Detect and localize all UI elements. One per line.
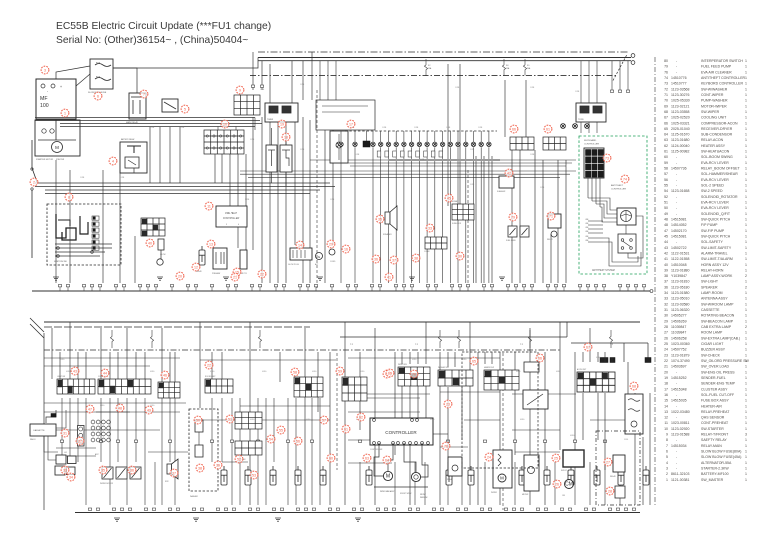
svg-text:CASSETTE: CASSETTE [701,308,720,312]
wiper max motor M1 [383,471,392,480]
starter sw heavy box [563,450,584,467]
parts row 41 SW-LIMIT-T/ALARM [664,257,747,261]
wire vertical lower [394,352,396,455]
svg-text:SAEFTY RELAY: SAEFTY RELAY [701,438,727,442]
relay with indicator [548,214,561,228]
svg-text:17: 17 [349,122,353,126]
svg-text:LINE: LINE [585,227,588,229]
sensor S6 [394,142,398,146]
svg-text:SOL-SAFETY: SOL-SAFETY [701,240,723,244]
battery MF100 B1 [36,79,76,119]
wire vertical lower [359,352,361,430]
svg-text:1025-02520: 1025-02520 [671,116,690,120]
svg-text:62: 62 [664,144,668,148]
svg-text:0.85G: 0.85G [412,359,417,361]
svg-text:F/P PUMP: F/P PUMP [701,223,718,227]
svg-text:1: 1 [745,438,747,442]
svg-text:SENDER-ENG TEMP: SENDER-ENG TEMP [701,382,736,386]
solenoid SV at 618 [618,466,624,485]
svg-text:HORN ASSY 12V: HORN ASSY 12V [701,263,729,267]
wire vertical lower mid [211,398,213,462]
callout 22 [205,361,213,369]
parts row 4 ALTERNATOR-55A [666,461,747,465]
solenoid SV at 446 [446,466,452,485]
wiper motor assembly [493,450,512,488]
svg-text:1: 1 [745,138,747,142]
svg-text:SOLENOID_ROTATOR: SOLENOID_ROTATOR [701,195,738,199]
solenoid SV at 544 [544,466,550,485]
svg-text:22: 22 [664,359,668,363]
wire vertical lower mid [61,398,63,462]
parts row 52 SOLENOID_ROTATOR [664,195,747,199]
wire bus corner left [113,58,258,69]
svg-text:56: 56 [664,178,668,182]
svg-text:30: 30 [664,314,668,318]
svg-text:1: 1 [745,76,747,80]
svg-text:0.85G: 0.85G [210,371,215,373]
wire vertical lower extra [425,386,427,430]
svg-text:1.25B: 1.25B [446,127,450,129]
parts row 36 SPEAKER [664,285,747,289]
callout 13 [207,240,215,248]
sensor row dashed rail [345,130,497,132]
svg-text:KEYBORD CONTROLLER: KEYBORD CONTROLLER [701,82,743,86]
svg-text:14: 14 [664,404,668,408]
connector CN-L4c [342,377,367,401]
svg-text:29: 29 [329,242,333,246]
svg-text:1: 1 [745,195,747,199]
dashed vertical separator B [467,170,469,287]
ignition switch contact maze [56,214,76,240]
horizontal harness lines mid-left [35,182,330,184]
parts row 21 SW_OVER LOAD [664,365,747,369]
svg-text:KEYBOARD: KEYBOARD [584,139,597,142]
svg-text:2: 2 [745,285,747,289]
svg-text:STARTER MOTOR: STARTER MOTOR [36,158,54,161]
svg-text:EVA-RCV LEVER: EVA-RCV LEVER [701,161,729,165]
speaker lower [167,459,178,479]
wire vertical [550,234,552,283]
svg-text:56: 56 [296,439,300,443]
parts row 23 SW-CHECK [664,353,747,357]
parts row 6 SLOW BLOW FUSE(80A) [666,450,747,454]
svg-text:60: 60 [664,155,668,159]
callout 40 [146,239,154,247]
svg-text:14514052: 14514052 [671,223,687,227]
svg-text:1: 1 [745,450,747,454]
wire vertical lower [649,393,651,505]
svg-text:34: 34 [664,291,668,295]
svg-text:41: 41 [387,275,391,279]
svg-text:CASSETTE: CASSETTE [33,429,45,432]
top dash-dot feeder line [258,51,628,53]
svg-text:1.25B: 1.25B [530,87,534,89]
svg-text:49: 49 [147,408,151,412]
svg-text:14515081: 14515081 [671,235,687,239]
parts row 59 EVA-RCV LEVER [664,161,747,165]
svg-text:76: 76 [444,444,448,448]
wire vertical lower deep [554,462,556,505]
svg-text:1123-02920: 1123-02920 [671,427,689,431]
svg-text:1023-00360: 1023-00360 [671,342,690,346]
wire vertical [459,64,461,206]
controller main box [370,418,433,445]
svg-text:6: 6 [97,94,99,98]
frame outline mid [316,100,375,130]
stub [250,285,253,287]
stub [274,285,277,287]
wire vertical lower deep [589,462,591,505]
svg-text:3: 3 [44,68,46,72]
svg-text:5: 5 [226,224,227,226]
svg-text:14502722: 14502722 [671,246,687,250]
lower band left border vertical [43,333,45,510]
speaker connector circle matrix [91,420,95,424]
antitheft relay contacts [618,234,636,253]
svg-text:0.85G: 0.85G [570,435,575,437]
wire vertical [309,120,311,283]
antitheft bundle to controller [588,198,617,210]
svg-text:INTERPERATOR SWITCH: INTERPERATOR SWITCH [701,59,743,63]
resistor R glow [158,239,164,250]
svg-text:1: 1 [745,65,747,69]
svg-text:SOL-2 SPEED: SOL-2 SPEED [701,184,724,188]
wire vertical [229,154,231,218]
callout 19 [278,120,286,128]
wire vertical lower mid [100,398,102,462]
stub [642,285,645,287]
wire vertical lower extra [604,393,606,470]
svg-text:52: 52 [237,457,241,461]
svg-text:SW-LIMIT-SAFETY: SW-LIMIT-SAFETY [701,246,732,250]
svg-text:1122-01558: 1122-01558 [671,257,689,261]
svg-text:FUSE: FUSE [452,201,458,203]
stub [370,285,373,287]
fuse block FB upper [452,204,474,220]
svg-text:HEATER-AIR: HEATER-AIR [701,404,722,408]
svg-text:1123-01680: 1123-01680 [671,138,689,142]
svg-text:60: 60 [329,456,333,460]
wire vertical lower [559,322,561,450]
svg-text:14503697: 14503697 [671,365,687,369]
svg-text:1: 1 [745,376,747,380]
stub [410,285,413,287]
svg-text:61: 61 [344,427,348,431]
svg-text:72289: 72289 [578,119,584,121]
parts row 8 SAEFTY RELAY [666,438,747,442]
svg-text:40: 40 [148,241,152,245]
svg-text:F.8: F.8 [506,65,508,67]
dashed safety box [462,352,538,468]
callout 54 [267,435,275,443]
callout 29 [327,240,335,248]
dash dot box lower right [596,431,640,505]
svg-text:48: 48 [118,406,122,410]
svg-text:CONTROLLER: CONTROLLER [385,430,417,435]
svg-text:50: 50 [196,418,200,422]
sensor S10 [425,142,429,146]
svg-text:1.25B: 1.25B [382,127,386,129]
svg-text:1: 1 [745,121,747,125]
wire vertical lower [454,352,456,367]
wire vertical lower [425,322,427,364]
parts row 11 CONT-PREHEAT [664,421,747,425]
wire vertical lower mid [287,398,289,462]
parts row 27 ROOM LAMP [664,331,747,335]
ground upper [409,277,415,280]
svg-text:1: 1 [745,70,747,74]
svg-text:5: 5 [666,455,668,459]
svg-text:LINE: LINE [585,240,588,242]
svg-text:1: 1 [745,331,747,335]
wire vertical lower mid [69,398,71,462]
callout 37 [390,256,398,264]
svg-text:1: 1 [745,178,747,182]
stub [66,285,69,287]
speaker R connector pair [55,466,65,475]
slow blow fuse box F60 [90,59,113,89]
svg-text:36: 36 [130,468,134,472]
wire vertical lower [221,352,223,379]
speaker L connector pair [56,455,66,464]
wires acon box to sensors [580,122,582,133]
stub [354,285,357,287]
wire vertical lower deep [447,462,449,505]
wire vertical lower [447,352,449,367]
stub [602,285,605,287]
wire vertical lower [514,352,516,455]
callout 58 [291,368,299,376]
svg-text:66: 66 [512,127,516,131]
cassette radio [30,424,56,436]
parts row 14 HEATER-AIR [664,404,747,408]
side relay box [524,362,539,372]
svg-text:23: 23 [446,402,450,406]
svg-text:2: 2 [745,325,747,329]
left trunk wire with master switch [31,140,33,168]
svg-text:72: 72 [664,87,668,91]
svg-text:1023-00811: 1023-00811 [671,421,689,425]
parts row 3 STARTER-2.3KW [666,467,747,471]
parts row 22 SW_OILORD PRESSURE SW [664,359,749,363]
parts row 56 EVA-RCV LEVER [664,178,747,182]
svg-text:1.25B: 1.25B [330,199,334,201]
svg-text:1: 1 [64,111,66,115]
fuse tap [258,330,261,348]
antitheft controller box [617,208,636,225]
callout 2 [30,178,38,186]
svg-text:WASHER: WASHER [190,495,199,498]
svg-text:0.85G: 0.85G [250,419,255,421]
bus drop at 292 [291,61,293,103]
wire vertical [491,156,493,283]
wire vertical [565,160,567,283]
svg-text:SW-F/P PUMP: SW-F/P PUMP [701,229,725,233]
wire vertical lower extra [461,387,463,440]
svg-text:1.25B: 1.25B [180,127,184,129]
wires CN-B down [214,154,216,183]
svg-text:33: 33 [63,468,67,472]
relay lower right [613,455,625,472]
svg-text:1: 1 [745,365,747,369]
svg-text:41: 41 [664,257,668,261]
wire vertical lower [589,328,591,362]
wire vertical lower deep [109,462,111,505]
svg-text:1123-05010: 1123-05010 [671,297,689,301]
svg-text:1: 1 [745,461,747,465]
svg-text:EVA AIR CLEANER: EVA AIR CLEANER [701,70,732,74]
svg-text:0.85G: 0.85G [66,371,71,373]
wire vertical [332,123,334,245]
parts row 79 FUEL FEED PUMP [664,65,747,69]
wire vertical lower mid [85,398,87,462]
svg-text:55: 55 [664,184,668,188]
parts row 29 SW-BEACON LAMP [664,319,747,323]
svg-text:RELAY: RELAY [547,238,554,241]
connector CN-L6 [438,370,473,386]
svg-text:71: 71 [549,214,553,218]
svg-text:4: 4 [666,461,668,465]
svg-text:3: 3 [745,433,747,437]
svg-text:SW_OVER LOAD: SW_OVER LOAD [701,365,729,369]
svg-text:9: 9 [239,88,241,92]
svg-text:14515035: 14515035 [671,399,687,403]
master switch node [31,168,33,170]
relay cartridge pair [266,145,277,172]
svg-text:0.85G: 0.85G [556,371,561,373]
svg-text:ROOM LAMP: ROOM LAMP [205,375,216,378]
svg-text:48: 48 [664,223,668,227]
svg-text:19: 19 [280,122,284,126]
relay acon box right [576,103,606,122]
svg-text:SW-WIPER: SW-WIPER [701,110,720,114]
callout 14 [296,241,304,249]
svg-text:1.25B: 1.25B [260,89,264,91]
separator dash line before parts list [654,57,656,505]
solenoid SV at 643 [643,466,649,485]
parts row 55 SOL-2 SPEED [664,184,747,188]
connector CN-C [141,218,165,236]
wire vertical lower [144,352,146,379]
svg-text:32: 32 [664,302,668,306]
timer unit box [265,103,298,122]
svg-text:79: 79 [511,215,515,219]
wire vertical lower deep [619,462,621,505]
connector row lower band [57,379,95,394]
svg-text:26: 26 [664,336,668,340]
ground upper [499,277,505,280]
svg-text:1: 1 [745,59,747,63]
fuse break F3 on bus [523,59,526,76]
svg-text:SPEAKER: SPEAKER [383,233,392,236]
svg-text:73: 73 [605,156,609,160]
callout 35 [99,466,107,474]
callout 59 [336,367,344,375]
parts row 58 RELAY_BOOM OFFSET [664,167,747,171]
svg-text:1: 1 [745,308,747,312]
wire vertical [519,150,521,283]
starter motor unit [35,120,80,156]
wire vertical lower deep [257,462,259,505]
svg-text:45: 45 [664,235,668,239]
svg-text:GLOW PLUG: GLOW PLUG [288,264,299,266]
svg-text:1: 1 [745,189,747,193]
svg-text:F.2: F.2 [428,65,430,67]
wire vertical lower [484,352,486,364]
svg-text:68: 68 [664,110,668,114]
parts row 31 CASSETTE [664,308,747,312]
wire vertical [534,150,536,283]
coil unit right column [625,394,643,434]
svg-text:64: 64 [664,133,668,137]
svg-text:METER: METER [522,494,529,496]
svg-text:33: 33 [428,226,432,230]
dash-dot distribution bus [250,75,618,77]
callout 5 [181,105,189,113]
sensor S17 [479,142,483,146]
svg-text:ANTENNA ASSY: ANTENNA ASSY [701,297,728,301]
callout 71 [547,212,555,220]
svg-text:CLUSTER ASSY: CLUSTER ASSY [701,387,728,391]
parts row 57 SOL-HAMMER/SHEAR [664,172,747,176]
svg-text:14515252: 14515252 [671,376,687,380]
callout 25 [552,454,560,462]
svg-text:1: 1 [745,218,747,222]
svg-text:RELAY-MAIN: RELAY-MAIN [701,444,722,448]
callout 10 [221,120,229,128]
stub [306,285,309,287]
callout 39 [214,461,222,469]
wire vertical lower deep [265,462,267,505]
svg-text:CONT-PREHEAT: CONT-PREHEAT [701,421,729,425]
wire vertical lower deep [231,462,233,505]
wire fuse to relay [113,68,137,93]
svg-text:38: 38 [414,256,418,260]
stub [234,285,237,287]
parts row 17 CLUSTER ASSY [664,387,747,391]
svg-text:FRONT WDW: FRONT WDW [400,493,412,495]
svg-text:37: 37 [172,471,176,475]
svg-text:ANTITHEFT: ANTITHEFT [611,184,624,187]
svg-text:1: 1 [745,472,747,476]
svg-text:ANTITHEFT SYSTEM: ANTITHEFT SYSTEM [592,269,615,272]
wire vertical lower deep [311,462,313,505]
lower band second bus [44,326,310,328]
callout 52 [235,455,243,463]
svg-text:7: 7 [666,444,668,448]
svg-text:51: 51 [664,201,668,205]
callout 38 [412,254,420,262]
stub [554,285,557,287]
wire vertical [245,154,247,250]
svg-text:SW-W/WASHER: SW-W/WASHER [701,87,728,91]
wire vertical lower [582,352,584,362]
svg-text:SW-CHECK: SW-CHECK [701,353,721,357]
stub [506,285,509,287]
connector CN-L8 big [577,372,615,392]
svg-text:10: 10 [664,427,668,431]
svg-text:11039847: 11039847 [671,325,686,329]
svg-text:LAMP ASSY-WORK: LAMP ASSY-WORK [701,274,733,278]
svg-text:0.85G: 0.85G [462,359,467,361]
parts row 20 SW-ENG OIL PRESS [664,370,747,374]
wire vertical lower mid [221,398,223,462]
svg-text:16: 16 [344,247,348,251]
stub [546,285,549,287]
svg-text:SUB-CONDENSOR: SUB-CONDENSOR [701,133,733,137]
parts row 32 SW-W/ROOM LAMP [664,302,747,306]
svg-text:69: 69 [664,104,668,108]
